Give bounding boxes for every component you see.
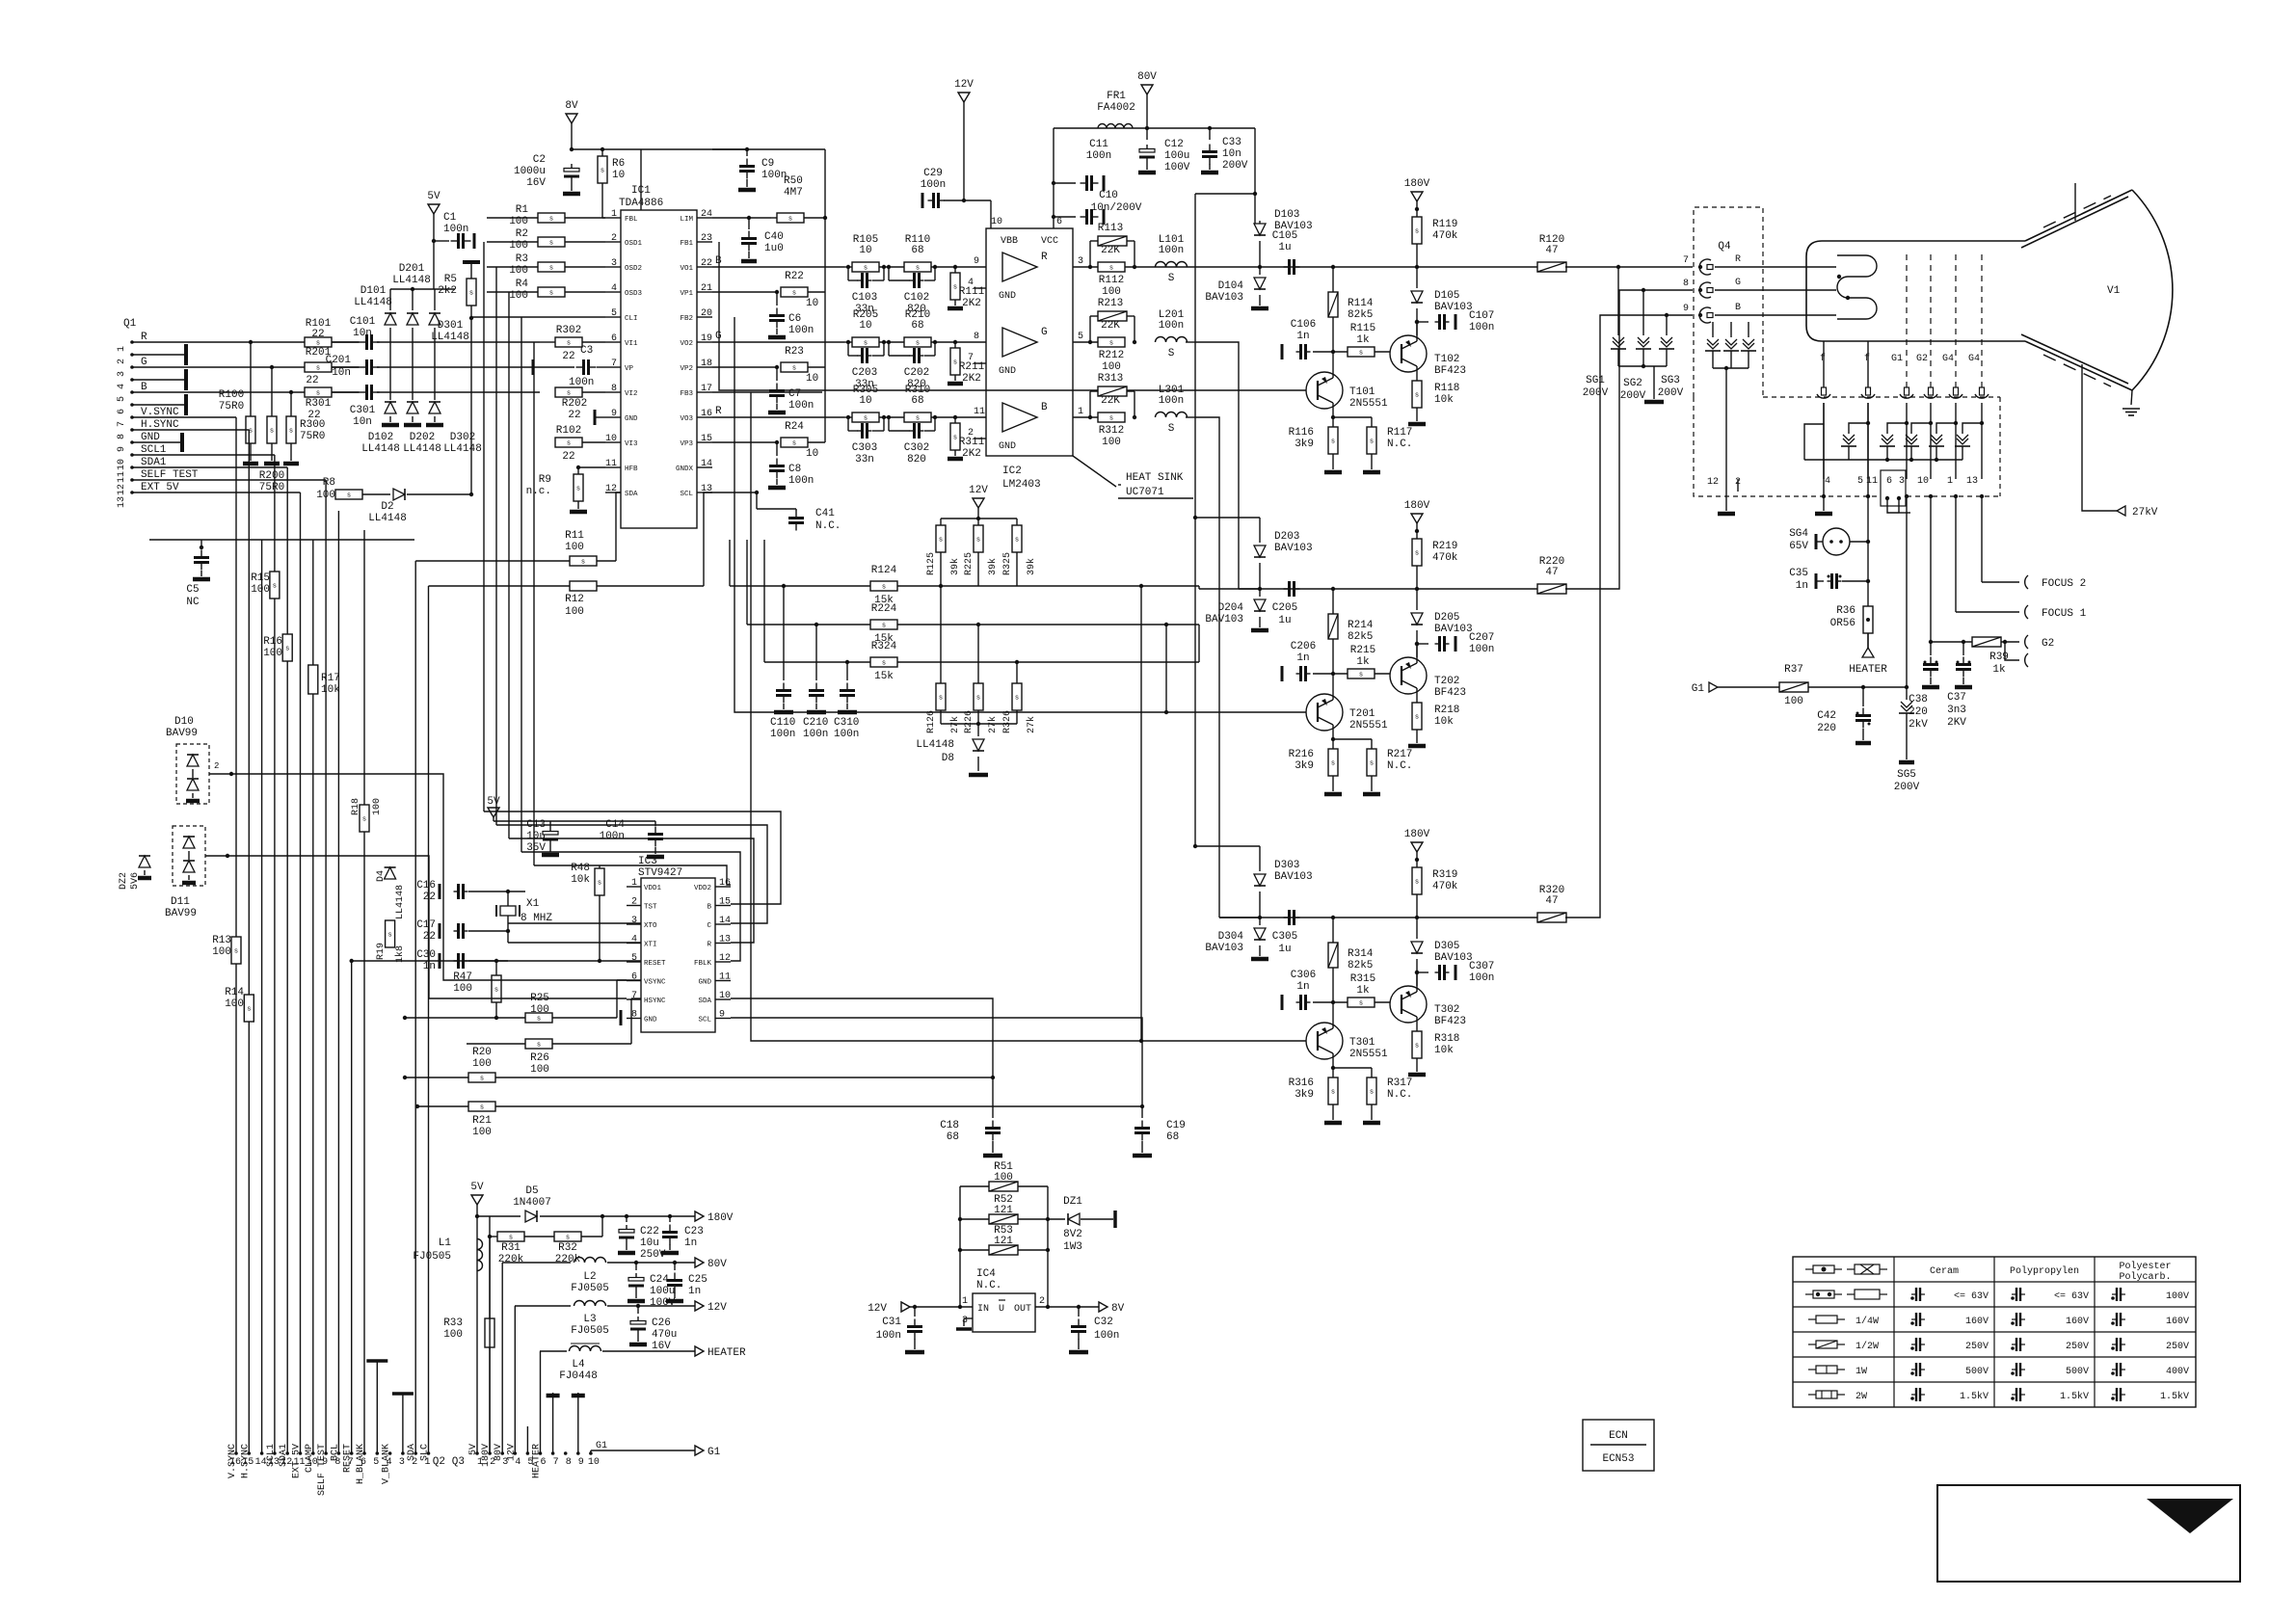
svg-text:9: 9	[611, 409, 617, 419]
svg-text:D304: D304	[1218, 931, 1244, 943]
svg-text:C29: C29	[923, 168, 943, 179]
svg-text:R301: R301	[306, 398, 332, 410]
svg-text:VO1: VO1	[680, 265, 693, 273]
svg-text:R214: R214	[1348, 620, 1374, 631]
svg-text:D203: D203	[1274, 531, 1299, 543]
svg-text:GNDX: GNDX	[676, 466, 694, 473]
svg-text:12: 12	[605, 484, 617, 494]
svg-text:SDA1: SDA1	[141, 457, 167, 468]
svg-text:10: 10	[719, 991, 731, 1001]
svg-text:R48: R48	[571, 863, 590, 874]
svg-text:BAV99: BAV99	[165, 908, 197, 919]
svg-text:7: 7	[117, 421, 127, 427]
svg-text:C6: C6	[788, 313, 801, 325]
svg-text:s: s	[567, 340, 571, 348]
svg-text:R317: R317	[1387, 1078, 1412, 1089]
svg-text:s: s	[469, 290, 473, 298]
svg-text:C33: C33	[1222, 137, 1241, 148]
svg-text:100n: 100n	[600, 831, 625, 842]
svg-text:100: 100	[565, 606, 584, 618]
svg-text:f: f	[1864, 353, 1870, 364]
svg-text:SCL1: SCL1	[141, 444, 167, 456]
svg-text:D202: D202	[410, 432, 435, 443]
svg-text:VP: VP	[625, 365, 634, 373]
svg-text:2kV: 2kV	[1909, 719, 1928, 731]
svg-text:33n: 33n	[855, 454, 874, 466]
svg-text:100: 100	[472, 1127, 492, 1138]
svg-text:R4: R4	[516, 279, 529, 290]
svg-text:22: 22	[568, 410, 580, 421]
svg-text:T301: T301	[1349, 1037, 1375, 1049]
svg-text:R26: R26	[530, 1052, 549, 1064]
svg-text:R213: R213	[1098, 298, 1123, 309]
svg-text:10k: 10k	[1434, 716, 1454, 728]
svg-text:GND: GND	[999, 291, 1016, 302]
svg-text:4M7: 4M7	[784, 187, 803, 199]
svg-text:100n: 100n	[1469, 322, 1494, 333]
svg-text:FOCUS 2: FOCUS 2	[2042, 578, 2086, 590]
svg-text:100V: 100V	[1164, 162, 1190, 173]
svg-text:3: 3	[117, 371, 127, 377]
svg-text:3n3: 3n3	[1947, 705, 1966, 716]
svg-text:FJ0505: FJ0505	[571, 1283, 609, 1294]
svg-text:R115: R115	[1350, 323, 1375, 334]
svg-text:24: 24	[701, 209, 712, 220]
svg-text:1W3: 1W3	[1063, 1241, 1082, 1253]
svg-text:D305: D305	[1434, 941, 1459, 952]
svg-text:OUT: OUT	[1014, 1304, 1031, 1315]
svg-text:6: 6	[1886, 476, 1892, 487]
svg-text:7: 7	[553, 1457, 559, 1468]
svg-text:BF423: BF423	[1434, 1016, 1466, 1027]
svg-text:100: 100	[1784, 696, 1803, 707]
svg-text:s: s	[792, 290, 796, 298]
svg-text:5V: 5V	[487, 796, 500, 808]
svg-text:OSD3: OSD3	[625, 290, 643, 298]
svg-text:D102: D102	[368, 432, 393, 443]
svg-text:L4: L4	[572, 1359, 585, 1370]
svg-text:Polycarb.: Polycarb.	[2119, 1271, 2171, 1283]
svg-text:R219: R219	[1432, 541, 1457, 552]
svg-text:1u: 1u	[1278, 615, 1291, 626]
svg-text:s: s	[549, 240, 553, 248]
svg-text:9: 9	[578, 1457, 584, 1468]
svg-text:R: R	[715, 406, 722, 417]
svg-text:Q3: Q3	[452, 1456, 465, 1468]
svg-text:BF423: BF423	[1434, 365, 1466, 377]
svg-text:22: 22	[306, 375, 318, 386]
svg-text:V_BLANK: V_BLANK	[382, 1444, 392, 1484]
svg-text:BAV103: BAV103	[1205, 292, 1243, 304]
svg-text:R313: R313	[1098, 373, 1123, 385]
svg-text:D2: D2	[381, 501, 393, 513]
svg-text:100n: 100n	[770, 729, 795, 740]
svg-text:5: 5	[631, 953, 637, 964]
svg-text:BAV103: BAV103	[1205, 943, 1243, 954]
svg-text:C103: C103	[852, 292, 877, 304]
svg-text:R5: R5	[444, 274, 457, 285]
svg-text:100n: 100n	[1086, 150, 1111, 162]
svg-text:5: 5	[373, 1457, 379, 1468]
svg-text:s: s	[882, 623, 886, 630]
svg-text:U: U	[999, 1304, 1004, 1315]
svg-text:68: 68	[947, 1131, 959, 1143]
svg-text:s: s	[1415, 392, 1419, 400]
svg-text:R39: R39	[1989, 652, 2009, 663]
svg-text:s: s	[864, 340, 868, 348]
svg-text:R24: R24	[785, 421, 804, 433]
svg-text:R325: R325	[1002, 552, 1013, 575]
svg-text:s: s	[1415, 1043, 1419, 1051]
svg-text:C207: C207	[1469, 632, 1494, 644]
svg-text:1: 1	[117, 346, 127, 352]
svg-text:7: 7	[611, 359, 617, 369]
svg-text:s: s	[270, 428, 274, 436]
svg-text:D205: D205	[1434, 612, 1459, 624]
svg-text:R315: R315	[1350, 973, 1375, 985]
svg-text:s: s	[387, 932, 391, 940]
svg-text:R: R	[707, 942, 711, 949]
svg-text:s: s	[1370, 439, 1374, 446]
svg-text:R8: R8	[323, 477, 335, 489]
svg-text:C106: C106	[1291, 319, 1316, 331]
svg-text:s: s	[567, 390, 571, 398]
svg-text:s: s	[494, 987, 498, 995]
svg-text:D201: D201	[399, 263, 425, 275]
svg-text:22: 22	[311, 329, 324, 340]
svg-text:3k9: 3k9	[1295, 439, 1314, 450]
svg-text:s: s	[316, 390, 320, 398]
svg-text:200V: 200V	[1658, 387, 1684, 399]
svg-text:4: 4	[968, 278, 974, 288]
svg-text:10: 10	[806, 298, 818, 309]
svg-text:C301: C301	[350, 405, 376, 416]
svg-text:C8: C8	[788, 464, 801, 475]
svg-text:SCL: SCL	[680, 491, 693, 498]
svg-text:D10: D10	[174, 716, 194, 728]
svg-text:22: 22	[701, 258, 712, 269]
svg-text:G1: G1	[707, 1447, 721, 1458]
svg-text:s: s	[549, 265, 553, 273]
svg-text:200V: 200V	[1894, 782, 1920, 793]
svg-text:100n: 100n	[1159, 320, 1184, 332]
svg-text:R47: R47	[453, 971, 472, 983]
svg-text:VSYNC: VSYNC	[644, 979, 666, 987]
svg-text:N.C.: N.C.	[1387, 760, 1412, 772]
svg-text:s: s	[953, 435, 957, 442]
svg-text:R318: R318	[1434, 1033, 1459, 1045]
svg-text:7: 7	[968, 353, 974, 363]
svg-text:IC4: IC4	[976, 1268, 996, 1280]
svg-text:LL4148: LL4148	[361, 443, 400, 455]
svg-text:C9: C9	[761, 158, 774, 170]
svg-text:s: s	[1015, 537, 1019, 545]
svg-text:27k: 27k	[987, 716, 999, 733]
svg-text:27k: 27k	[1026, 716, 1037, 733]
svg-text:8: 8	[631, 1010, 637, 1021]
svg-text:22K: 22K	[1101, 320, 1120, 332]
svg-text:C203: C203	[852, 367, 877, 379]
svg-text:75R0: 75R0	[300, 431, 325, 442]
svg-text:BAV103: BAV103	[1434, 952, 1473, 964]
svg-text:GND: GND	[698, 979, 711, 987]
svg-text:HEATER: HEATER	[1849, 664, 1887, 676]
svg-text:13: 13	[1966, 476, 1978, 487]
svg-text:R116: R116	[1289, 427, 1314, 439]
svg-text:R37: R37	[1784, 664, 1803, 676]
svg-text:C11: C11	[1089, 139, 1108, 150]
svg-text:Q1: Q1	[123, 318, 137, 330]
svg-text:FB3: FB3	[680, 390, 693, 398]
svg-text:C101: C101	[350, 316, 376, 328]
svg-text:39k: 39k	[1026, 558, 1037, 575]
svg-text:68: 68	[911, 395, 923, 407]
svg-text:s: s	[882, 584, 886, 592]
svg-text:C310: C310	[834, 717, 859, 729]
svg-text:3: 3	[962, 1316, 968, 1326]
svg-text:C42: C42	[1817, 710, 1836, 722]
svg-text:7: 7	[631, 991, 637, 1001]
svg-text:s: s	[480, 1104, 484, 1112]
svg-text:9: 9	[974, 256, 979, 267]
svg-text:39k: 39k	[949, 558, 961, 575]
svg-text:R23: R23	[785, 346, 804, 358]
svg-text:BAV103: BAV103	[1205, 614, 1243, 625]
svg-text:160V: 160V	[2066, 1317, 2089, 1327]
svg-text:FB2: FB2	[680, 315, 693, 323]
svg-text:470k: 470k	[1432, 552, 1458, 564]
svg-text:100n: 100n	[1159, 395, 1184, 407]
svg-text:H.SYNC: H.SYNC	[141, 419, 179, 431]
svg-text:LL4148: LL4148	[392, 275, 431, 286]
svg-text:11: 11	[117, 471, 127, 483]
svg-text:6: 6	[117, 409, 127, 414]
svg-text:100: 100	[1102, 361, 1121, 373]
svg-text:SELF TEST: SELF TEST	[141, 469, 199, 481]
svg-text:s: s	[273, 583, 277, 591]
svg-text:G4: G4	[1968, 354, 1980, 364]
svg-text:2W: 2W	[1855, 1392, 1867, 1402]
svg-text:11: 11	[605, 459, 617, 469]
svg-text:12: 12	[117, 484, 127, 495]
svg-text:L1: L1	[439, 1237, 452, 1249]
svg-text:C3: C3	[580, 345, 593, 357]
svg-text:8: 8	[117, 434, 127, 439]
svg-text:8 MHZ: 8 MHZ	[521, 913, 552, 924]
svg-text:C16: C16	[416, 880, 436, 891]
svg-text:R215: R215	[1350, 645, 1375, 656]
svg-text:IN: IN	[977, 1304, 989, 1315]
svg-text:10k: 10k	[1434, 1045, 1454, 1056]
svg-text:15: 15	[719, 897, 731, 908]
svg-text:f: f	[1820, 353, 1826, 364]
svg-text:s: s	[1359, 350, 1363, 358]
svg-text:D204: D204	[1218, 602, 1244, 614]
svg-text:R217: R217	[1387, 749, 1412, 760]
svg-text:C2: C2	[533, 154, 546, 166]
svg-text:<= 63V: <= 63V	[1954, 1291, 1989, 1302]
svg-text:8: 8	[974, 332, 979, 342]
svg-text:C37: C37	[1947, 692, 1966, 704]
svg-text:23: 23	[701, 233, 712, 244]
svg-text:s: s	[549, 290, 553, 298]
svg-text:1: 1	[631, 878, 637, 889]
svg-text:SG1: SG1	[1586, 375, 1605, 386]
svg-text:5: 5	[611, 308, 617, 319]
svg-text:470k: 470k	[1432, 881, 1458, 892]
svg-text:GND: GND	[644, 1017, 657, 1024]
svg-text:T302: T302	[1434, 1004, 1459, 1016]
svg-text:s: s	[347, 492, 351, 500]
svg-text:5: 5	[1857, 476, 1863, 487]
svg-text:100: 100	[472, 1058, 492, 1070]
svg-text:s: s	[316, 365, 320, 373]
svg-text:4: 4	[611, 283, 617, 294]
svg-text:R312: R312	[1099, 425, 1124, 437]
svg-text:s: s	[362, 816, 366, 824]
svg-text:s: s	[1331, 439, 1335, 446]
svg-text:R117: R117	[1387, 427, 1412, 439]
svg-text:SDA: SDA	[698, 998, 711, 1005]
svg-text:10n/200V: 10n/200V	[1091, 202, 1142, 214]
svg-text:R316: R316	[1289, 1078, 1314, 1089]
svg-text:4: 4	[631, 935, 637, 945]
svg-text:15k: 15k	[874, 671, 894, 682]
svg-text:FBLK: FBLK	[694, 960, 712, 968]
svg-text:4: 4	[1825, 476, 1830, 487]
svg-text:C18: C18	[940, 1120, 959, 1131]
svg-text:Q2: Q2	[433, 1456, 445, 1468]
svg-text:s: s	[285, 646, 289, 653]
svg-text:BAV103: BAV103	[1434, 302, 1473, 313]
svg-text:10: 10	[859, 320, 871, 332]
svg-text:R113: R113	[1098, 223, 1123, 234]
svg-text:FR1: FR1	[1107, 91, 1126, 102]
svg-text:1k: 1k	[1356, 656, 1370, 668]
svg-text:1: 1	[1947, 476, 1953, 487]
svg-text:1/2W: 1/2W	[1855, 1341, 1879, 1352]
svg-text:1u0: 1u0	[764, 243, 784, 254]
svg-text:100: 100	[225, 998, 244, 1010]
svg-text:C: C	[707, 922, 711, 930]
svg-text:3: 3	[611, 258, 617, 269]
svg-text:D301: D301	[438, 320, 464, 332]
svg-text:G: G	[1041, 327, 1048, 338]
svg-text:C302: C302	[904, 442, 929, 454]
svg-text:100u: 100u	[650, 1286, 675, 1297]
svg-text:L2: L2	[583, 1271, 596, 1283]
svg-text:s: s	[1109, 340, 1113, 348]
svg-text:100V: 100V	[2166, 1291, 2189, 1302]
svg-text:R126: R126	[926, 710, 937, 733]
svg-text:1.5kV: 1.5kV	[1960, 1391, 1989, 1402]
svg-text:R13: R13	[212, 935, 231, 946]
svg-text:65V: 65V	[1789, 541, 1808, 552]
svg-text:LL4148: LL4148	[403, 443, 441, 455]
svg-text:s: s	[882, 660, 886, 668]
svg-text:12: 12	[1707, 477, 1719, 488]
svg-text:OSD1: OSD1	[625, 240, 643, 248]
svg-text:16V: 16V	[652, 1341, 671, 1352]
svg-text:R31: R31	[501, 1242, 521, 1254]
svg-text:LM2403: LM2403	[1002, 479, 1041, 491]
svg-text:T101: T101	[1349, 386, 1375, 398]
svg-text:C105: C105	[1272, 230, 1297, 242]
svg-text:R2: R2	[516, 228, 528, 240]
svg-text:FJ0448: FJ0448	[559, 1370, 598, 1382]
svg-text:V1: V1	[2107, 285, 2121, 297]
svg-text:21: 21	[701, 283, 712, 294]
svg-text:D105: D105	[1434, 290, 1459, 302]
svg-text:10n: 10n	[332, 367, 351, 379]
svg-text:IC2: IC2	[1002, 466, 1022, 477]
svg-text:R14: R14	[225, 987, 244, 998]
svg-text:820: 820	[907, 454, 926, 466]
svg-text:DZ1: DZ1	[1063, 1196, 1082, 1208]
svg-text:1: 1	[611, 209, 617, 220]
svg-text:SG4: SG4	[1789, 528, 1808, 540]
svg-text:s: s	[976, 695, 980, 703]
svg-text:200V: 200V	[1222, 160, 1248, 172]
svg-text:R100: R100	[219, 389, 244, 401]
svg-text:1u: 1u	[1278, 944, 1291, 955]
svg-text:10u: 10u	[640, 1237, 659, 1249]
svg-text:s: s	[289, 428, 293, 436]
svg-text:15: 15	[701, 434, 712, 444]
svg-text:LL4148: LL4148	[431, 332, 469, 343]
svg-text:G2: G2	[1916, 354, 1928, 364]
svg-text:160V: 160V	[1965, 1317, 1989, 1327]
svg-text:9: 9	[117, 446, 127, 452]
svg-text:80V: 80V	[1137, 71, 1157, 83]
svg-text:s: s	[566, 1235, 570, 1242]
svg-text:LL4148: LL4148	[916, 739, 954, 751]
svg-text:2K2: 2K2	[962, 373, 981, 385]
svg-text:s: s	[1359, 1000, 1363, 1008]
svg-text:68: 68	[911, 245, 923, 256]
svg-text:2k2: 2k2	[438, 285, 457, 297]
svg-text:C210: C210	[803, 717, 828, 729]
svg-text:LL4148: LL4148	[354, 297, 392, 308]
svg-text:20: 20	[701, 308, 712, 319]
svg-text:s: s	[537, 1042, 541, 1050]
svg-text:7: 7	[1683, 255, 1689, 266]
svg-text:3k9: 3k9	[1295, 760, 1314, 772]
svg-text:2: 2	[631, 897, 637, 908]
svg-text:Q4: Q4	[1718, 241, 1731, 253]
svg-text:C1: C1	[443, 212, 457, 224]
svg-text:C5: C5	[186, 584, 199, 596]
svg-text:10: 10	[806, 373, 818, 385]
svg-text:s: s	[1109, 415, 1113, 423]
svg-text:500V: 500V	[1965, 1367, 1989, 1377]
svg-text:s: s	[1331, 760, 1335, 768]
svg-text:R: R	[1041, 252, 1048, 263]
svg-text:s: s	[792, 440, 796, 448]
svg-text:s: s	[537, 1016, 541, 1024]
svg-text:10: 10	[991, 217, 1002, 227]
svg-text:22: 22	[562, 351, 574, 362]
svg-text:R212: R212	[1099, 350, 1124, 361]
svg-text:1N4007: 1N4007	[513, 1197, 551, 1209]
svg-text:1u: 1u	[1278, 242, 1291, 253]
svg-text:12: 12	[719, 953, 731, 964]
svg-text:SCL: SCL	[698, 1017, 711, 1024]
svg-text:6: 6	[631, 972, 637, 983]
svg-text:VBB: VBB	[1001, 236, 1018, 247]
svg-text:C24: C24	[650, 1274, 669, 1286]
svg-text:BF423: BF423	[1434, 687, 1466, 699]
